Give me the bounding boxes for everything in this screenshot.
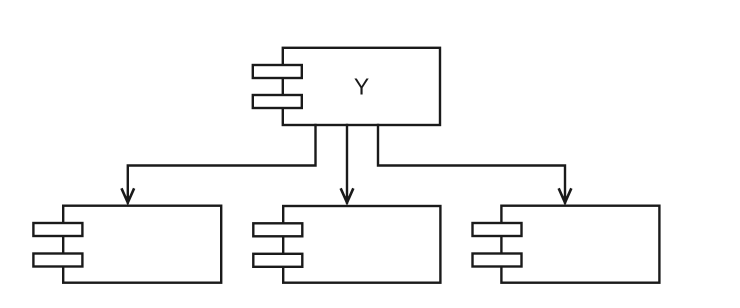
wire right connector bbox=[378, 125, 565, 203]
component right main box bbox=[501, 206, 659, 283]
component middle tab 1 bbox=[253, 223, 302, 236]
component Y tab 2 bbox=[253, 95, 302, 108]
component right tab 1 bbox=[473, 223, 522, 236]
arrowhead right bbox=[559, 190, 571, 203]
component Y tab 1 bbox=[253, 65, 302, 78]
arrowhead left bbox=[122, 190, 134, 203]
component left main box bbox=[63, 206, 221, 283]
component Y main box bbox=[283, 48, 440, 125]
wire left connector bbox=[128, 125, 316, 203]
component left tab 2 bbox=[33, 254, 82, 267]
component right tab 2 bbox=[473, 254, 522, 267]
component middle main box bbox=[283, 206, 440, 283]
component left tab 1 bbox=[33, 223, 82, 236]
arrowhead middle bbox=[341, 190, 353, 203]
svg-text:Y: Y bbox=[354, 74, 369, 100]
component middle tab 2 bbox=[253, 254, 302, 267]
wire middle connector bbox=[346, 125, 348, 203]
